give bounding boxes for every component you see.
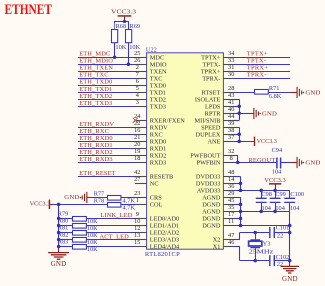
svg-text:TXD0: TXD0 [150, 82, 166, 89]
svg-text:PWFBOUT: PWFBOUT [190, 153, 220, 160]
wire LED rail vertical [58, 204, 60, 247]
svg-text:22: 22 [277, 232, 283, 239]
pin 19 RXD2 stub [135, 155, 147, 157]
pin 6 TXD0 stub [135, 85, 147, 87]
svg-text:VCC3.3: VCC3.3 [111, 8, 137, 15]
svg-text:GND: GND [282, 275, 298, 283]
capacitor C99 top lead [275, 190, 277, 198]
junction at pin38 [237, 133, 241, 137]
svg-text:DGND: DGND [202, 223, 221, 230]
wire VCC3.3 bar to rail [53, 204, 59, 206]
pin 43 ISOLATE stub [223, 99, 234, 101]
pin 7 TXC stub [135, 78, 147, 80]
pin 15 LED4/AD4 stub [135, 246, 147, 248]
junction R68/ETH_MDC [113, 55, 117, 59]
svg-text:2: 2 [136, 64, 139, 71]
power VCC3.3 (top) bar symbol [118, 15, 132, 17]
pin 23 CRS stub [135, 197, 147, 199]
svg-text:3: 3 [136, 99, 139, 106]
wire R80 to pin [86, 225, 135, 227]
resistor R81 [73, 231, 87, 236]
svg-text:RESETB: RESETB [150, 174, 173, 181]
pin 1 COL stub [135, 204, 147, 206]
pin 11 DGND stub [223, 225, 234, 227]
svg-text:34: 34 [228, 50, 235, 57]
junction at pin11 [239, 224, 243, 228]
wire pin43 to riser [234, 99, 239, 101]
capacitor C98 top lead [261, 190, 263, 198]
svg-text:23: 23 [134, 190, 140, 197]
svg-text:31: 31 [228, 64, 234, 71]
pin 44 MII/SNIB stub [223, 120, 234, 122]
pin 34 TPTX+ stub [223, 57, 234, 59]
svg-text:R68: R68 [116, 23, 127, 30]
junction crystal top [253, 231, 257, 235]
pin 26 MDIO stub [135, 64, 147, 66]
pin 14 DVDD33 stub [223, 183, 234, 185]
svg-text:TXD2: TXD2 [150, 96, 166, 103]
svg-text:ETH_RXDV: ETH_RXDV [79, 121, 114, 128]
wire pin29 to rail [234, 197, 241, 199]
svg-text:RXD3: RXD3 [150, 160, 166, 167]
svg-text:ETH_RXC: ETH_RXC [79, 128, 109, 135]
svg-text:Y3: Y3 [263, 241, 271, 248]
pin 47 X2 stub [223, 239, 234, 241]
svg-text:ETH_RESET: ETH_RESET [79, 170, 116, 177]
svg-text:41: 41 [228, 99, 234, 106]
svg-text:DVDD33: DVDD33 [196, 181, 221, 188]
resistor R79 [73, 217, 87, 222]
wire R82 to pin [86, 239, 135, 241]
svg-text:16: 16 [134, 127, 140, 134]
svg-text:10K: 10K [115, 44, 126, 51]
svg-text:C101: C101 [276, 225, 290, 232]
svg-text:ACT_LED: ACT_LED [100, 233, 130, 240]
svg-text:ETH_TXD0: ETH_TXD0 [79, 79, 112, 86]
svg-text:AGND: AGND [202, 209, 221, 216]
pin 42 RESETB stub [135, 176, 147, 178]
resistor R81 left lead [59, 232, 73, 234]
pin 16 RXC stub [135, 134, 147, 136]
svg-text:35: 35 [228, 204, 234, 211]
svg-text:38: 38 [228, 127, 234, 134]
resistor R78 [108, 203, 121, 208]
svg-text:ETH_TXD1: ETH_TXD1 [79, 86, 112, 93]
svg-text:X2: X2 [213, 237, 221, 244]
svg-text:MDIO: MDIO [150, 61, 167, 68]
svg-text:TPTX-: TPTX- [203, 61, 221, 68]
wire R81 to pin [86, 232, 135, 234]
svg-text:VCC3.3: VCC3.3 [30, 200, 51, 207]
ground symbol GND (mode straps) [247, 113, 254, 115]
pin 12 LED2/AD2 stub [135, 232, 147, 234]
wire net ETH_RXD3 [78, 162, 135, 164]
svg-text:8: 8 [230, 155, 233, 162]
pin 35 AGND stub [223, 211, 234, 213]
wire net ETH_TXC [78, 78, 135, 80]
svg-text:36: 36 [228, 183, 234, 190]
wire right gnd rail vertical [289, 211, 291, 261]
pin 45 DGND stub [223, 204, 234, 206]
svg-text:TPRX+: TPRX+ [247, 65, 269, 72]
wire net TPRX- [234, 78, 290, 80]
resistor R68 [112, 30, 118, 43]
junction rail/R83 [57, 245, 61, 249]
junction rail/R79 [57, 217, 61, 221]
svg-text:ANE: ANE [207, 139, 220, 146]
pin 5 TXD1 stub [135, 92, 147, 94]
wire RPTR row to GND [239, 113, 248, 115]
svg-text:AVDD33: AVDD33 [197, 188, 221, 195]
svg-text:25MHz: 25MHz [249, 249, 274, 256]
svg-text:TPRX+: TPRX+ [201, 68, 221, 75]
wire net ETH_TXD2 [78, 99, 135, 101]
pin 36 AVDD33 stub [223, 190, 234, 192]
wire net ETH_RESET [78, 176, 135, 178]
svg-text:LED2/AD2: LED2/AD2 [150, 230, 179, 237]
pin 38 DUPLEX stub [223, 134, 234, 136]
wire VCC3.3 to R78 [59, 204, 108, 206]
wire net TPTX- [234, 64, 290, 66]
capacitor C100 bottom lead [289, 203, 291, 211]
ground symbol GND (bottom right) [289, 261, 291, 267]
junction at pin40 [237, 112, 241, 116]
wire riser X2 [239, 232, 241, 239]
resistor R80 [73, 224, 87, 229]
svg-text:LPDS: LPDS [205, 103, 221, 110]
svg-text:ETH_MDIO: ETH_MDIO [79, 58, 113, 65]
svg-text:ETH_TXEN: ETH_TXEN [79, 65, 113, 72]
svg-text:RXD0: RXD0 [150, 139, 166, 146]
wire pin39 to riser [234, 127, 239, 129]
capacitor C102 right lead [275, 260, 290, 262]
pin 22 RXDV stub [135, 127, 147, 129]
svg-text:104: 104 [275, 205, 285, 212]
wire pin8 to C94 [234, 162, 276, 164]
svg-text:VCC3.3: VCC3.3 [264, 177, 286, 184]
svg-text:104: 104 [262, 205, 272, 212]
pin 8 PWFBIN stub [223, 162, 234, 164]
svg-text:MDC: MDC [150, 54, 164, 61]
svg-text:RXD2: RXD2 [150, 153, 166, 160]
svg-text:ETHNET: ETHNET [5, 2, 53, 18]
svg-text:SPEED: SPEED [201, 125, 221, 132]
pin 33 TPTX- stub [223, 64, 234, 66]
wire C94 to GND [281, 162, 291, 164]
svg-text:R82: R82 [58, 231, 69, 238]
pin 21 RXD0 stub [135, 141, 147, 143]
svg-text:LED4/AD4: LED4/AD4 [150, 244, 180, 251]
svg-text:10K: 10K [129, 44, 140, 51]
svg-text:C98: C98 [261, 191, 272, 198]
svg-text:TXD1: TXD1 [150, 89, 166, 96]
junction at pin41 [237, 105, 241, 109]
svg-text:C99: C99 [275, 191, 286, 198]
wire net ETH_RXD2 [78, 155, 135, 157]
svg-text:DVDD33: DVDD33 [196, 174, 221, 181]
svg-text:NC: NC [150, 181, 159, 188]
no-connect X at pin 24 [133, 118, 138, 123]
wire pin14 to rail [234, 183, 241, 185]
capacitor C102 [270, 255, 275, 266]
op: IC U22 RTL8201CP body [147, 53, 224, 249]
svg-text:13: 13 [134, 232, 140, 239]
wire R71 to GND [269, 92, 291, 94]
wire pin48 to rail [234, 176, 241, 178]
svg-text:14: 14 [228, 176, 235, 183]
capacitor C100 [284, 198, 295, 202]
resistor R71 [255, 90, 269, 95]
wire riser 43-44 [239, 99, 241, 120]
svg-text:7: 7 [136, 71, 139, 78]
svg-text:TPTX+: TPTX+ [201, 54, 221, 61]
junction at pin8 [236, 161, 240, 165]
svg-text:U22: U22 [146, 46, 157, 53]
svg-text:LED3/AD3: LED3/AD3 [150, 237, 179, 244]
capacitor C94 [277, 157, 281, 168]
pin 37 ANE stub [223, 141, 234, 143]
junction at pin14 [239, 182, 243, 186]
wire X1 net horizontal [240, 260, 270, 262]
crystal Y3 [250, 240, 260, 248]
pin 31 TPRX+ stub [223, 71, 234, 73]
svg-text:RTL8201CP: RTL8201CP [145, 251, 180, 258]
resistor R83 [73, 245, 87, 250]
svg-text:20: 20 [134, 141, 140, 148]
svg-text:GND: GND [64, 194, 79, 201]
svg-text:COL: COL [150, 202, 163, 209]
svg-text:104: 104 [272, 168, 282, 175]
junction C99 bottom [273, 210, 277, 214]
crystal Y3 bottom lead [255, 248, 257, 260]
svg-text:R83: R83 [58, 238, 69, 245]
svg-text:R80: R80 [58, 217, 69, 224]
svg-text:27: 27 [134, 176, 140, 183]
svg-text:6: 6 [136, 78, 139, 85]
junction VCC stem [273, 189, 277, 193]
svg-text:RXC: RXC [150, 132, 163, 139]
junction R69/ETH_MDIO [127, 62, 131, 66]
svg-text:R81: R81 [58, 224, 69, 231]
pin 9 LED0/AD0 stub [135, 218, 147, 220]
pin 2 TXEN stub [135, 71, 147, 73]
pin 17 DGND stub [223, 218, 234, 220]
resistor R82 [73, 238, 87, 243]
wire pin41 to riser [234, 106, 239, 108]
wire net ETH_RXD1 [78, 148, 135, 150]
wire pin28 to R71 [234, 92, 255, 94]
resistor R77 [108, 196, 121, 201]
svg-text:RXD1: RXD1 [150, 146, 166, 153]
svg-text:C102: C102 [276, 254, 290, 261]
svg-text:ETH_RXD2: ETH_RXD2 [79, 149, 113, 156]
svg-text:C94: C94 [272, 147, 283, 154]
junction VCC stem top [123, 20, 127, 24]
resistor R69 bottom lead [128, 43, 130, 64]
wire net ETH_MDIO [78, 64, 135, 66]
svg-text:REGOUT: REGOUT [248, 157, 275, 164]
svg-text:GND: GND [262, 110, 277, 117]
svg-text:6.8K: 6.8K [269, 93, 282, 100]
junction rail/C101 [288, 231, 292, 235]
resistor R69 [126, 30, 132, 43]
ground symbol GND (C94) [290, 162, 297, 164]
junction rail/R82 [57, 238, 61, 242]
svg-text:RTSET: RTSET [202, 89, 221, 96]
svg-text:ETH_RXD3: ETH_RXD3 [79, 156, 113, 163]
wire riser X1 [239, 246, 241, 260]
wire pin35 cap-gnd horizontal [234, 211, 290, 213]
svg-text:RXDV: RXDV [150, 125, 168, 132]
svg-text:DUPLEX: DUPLEX [196, 132, 221, 139]
pin 24 RXER/FXEN stub [135, 120, 147, 122]
svg-text:40: 40 [228, 106, 234, 113]
wire net ETH_MDC [78, 57, 135, 59]
pin 46 X1 stub [223, 246, 234, 248]
svg-text:5: 5 [136, 85, 139, 92]
capacitor C98 [256, 198, 267, 202]
wire net ETH_RXD0 [78, 141, 135, 143]
svg-text:18: 18 [134, 155, 140, 162]
svg-text:48: 48 [228, 169, 234, 176]
pin 18 RXD3 stub [135, 162, 147, 164]
wire pin44 to riser [234, 120, 239, 122]
svg-text:ETH_RXD0: ETH_RXD0 [79, 135, 113, 142]
svg-text:21: 21 [134, 134, 140, 141]
wire R78 to pin1 [121, 204, 136, 206]
svg-text:46: 46 [228, 239, 234, 246]
svg-text:42: 42 [134, 169, 140, 176]
wire net TPRX+ [234, 71, 290, 73]
svg-text:4.7K: 4.7K [123, 197, 136, 204]
capacitor C99 bottom lead [275, 203, 277, 211]
wire net ETH_TXD3 [78, 106, 135, 108]
svg-text:4.7K: 4.7K [123, 204, 136, 211]
capacitor C100 top lead [289, 190, 291, 198]
svg-text:ETH_RXD1: ETH_RXD1 [79, 142, 113, 149]
svg-text:29: 29 [228, 190, 234, 197]
pin 30 TPRX- stub [223, 78, 234, 80]
svg-text:TPRX-: TPRX- [247, 72, 267, 79]
junction rail/R81 [57, 231, 61, 235]
svg-text:DGND: DGND [202, 216, 221, 223]
ground symbol GND (RTSET) [290, 92, 297, 94]
svg-text:28: 28 [228, 85, 234, 92]
wire pin17 to rail [234, 218, 241, 220]
svg-text:TPTX-: TPTX- [247, 58, 267, 65]
svg-text:47: 47 [228, 232, 234, 239]
junction crystal bottom [253, 259, 257, 263]
junction at pin35 [239, 210, 243, 214]
pin 48 DVDD33 stub [223, 176, 234, 178]
svg-text:33: 33 [228, 57, 234, 64]
capacitor C98 bottom lead [261, 203, 263, 211]
wire R77 to pin23 [121, 197, 136, 199]
svg-text:PWFBIN: PWFBIN [197, 160, 221, 167]
wire riser 39-37 [239, 127, 241, 141]
wire pin11 horizontal [234, 225, 290, 227]
wire net ETH_RXC [78, 134, 135, 136]
wire R79 to pin [86, 218, 135, 220]
svg-text:TPTX+: TPTX+ [247, 51, 268, 58]
resistor R79 left lead [59, 218, 73, 220]
svg-text:TXD3: TXD3 [150, 103, 166, 110]
capacitor C101 right lead [275, 232, 290, 234]
wire pin47 to riser [234, 239, 240, 241]
svg-text:11: 11 [228, 218, 234, 225]
svg-text:C100: C100 [290, 191, 304, 198]
svg-text:32: 32 [228, 148, 234, 155]
wire pin40 to riser [234, 113, 239, 115]
crystal Y3 top lead [255, 232, 257, 239]
svg-text:LED1/AD1: LED1/AD1 [150, 223, 179, 230]
pin 41 LPDS stub [223, 106, 234, 108]
wire VCC rail 48-36 [240, 176, 242, 190]
wire pin37 to VCC [234, 141, 254, 143]
svg-text:X1: X1 [213, 244, 221, 251]
resistor R83 left lead [59, 246, 73, 248]
svg-text:GND: GND [305, 160, 320, 167]
wire net ETH_TXD0 [78, 85, 135, 87]
svg-text:43: 43 [228, 92, 234, 99]
wire X2 net horizontal [240, 232, 270, 234]
wire GND rail 29-11 [240, 197, 242, 225]
designator R68 backing [115, 23, 129, 29]
svg-text:ETH_TXD3: ETH_TXD3 [79, 100, 112, 107]
wire net ETH_TXEN [78, 71, 135, 73]
svg-text:R71: R71 [269, 85, 280, 92]
power VCC3.3 (ANE) bar symbol [254, 137, 255, 146]
svg-text:R79: R79 [58, 210, 69, 217]
svg-text:R69: R69 [130, 23, 141, 30]
wire pin36 VCC rail horizontal [234, 190, 290, 192]
svg-text:12: 12 [134, 225, 140, 232]
junction VCC/R78/rail [57, 203, 61, 207]
wire net ETH_RXDV [78, 127, 135, 129]
svg-text:TXEN: TXEN [150, 68, 167, 75]
svg-text:10: 10 [134, 218, 140, 225]
wire net TPTX+ [234, 57, 290, 59]
wire R83 to pin [86, 246, 135, 248]
svg-text:RPTR: RPTR [205, 110, 222, 117]
wire pin32 to riser [234, 155, 238, 157]
pin 27 NC stub [135, 183, 147, 185]
pin 40 RPTR stub [223, 113, 234, 115]
junction at pin45 [239, 203, 243, 207]
wire pin45 to rail [234, 204, 241, 206]
svg-text:GND: GND [305, 89, 320, 96]
pin 28 RTSET stub [223, 92, 234, 94]
wire GND to R77 [91, 197, 108, 199]
pin 4 TXD2 stub [135, 99, 147, 101]
junction rail/pin11 [288, 224, 292, 228]
pin 32 PWFBOUT stub [223, 155, 234, 157]
svg-text:DGND: DGND [202, 202, 221, 209]
junction C98 bottom [259, 210, 263, 214]
svg-text:RXER/FXEN: RXER/FXEN [150, 117, 185, 124]
pin 39 SPEED stub [223, 127, 234, 129]
resistor R82 left lead [59, 239, 73, 241]
svg-text:37: 37 [228, 134, 234, 141]
svg-text:TPRX-: TPRX- [202, 75, 220, 82]
junction at pin37 [237, 140, 241, 144]
svg-text:39: 39 [228, 120, 234, 127]
svg-text:24: 24 [134, 113, 141, 120]
power VCC3.3 (LED pullups) bar symbol [49, 200, 51, 209]
svg-text:MII/SNIB: MII/SNIB [195, 117, 221, 124]
svg-text:CRS: CRS [150, 195, 162, 202]
svg-text:ISOLATE: ISOLATE [195, 96, 221, 103]
